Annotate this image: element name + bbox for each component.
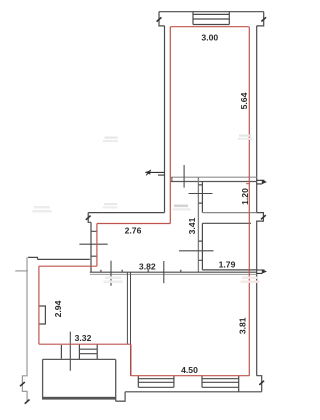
wire room 1.79 left wall segments xyxy=(201,223,203,270)
balcony outline xyxy=(43,359,116,401)
wire hall-corridor vertical wall xyxy=(197,177,199,272)
watermark 1 xyxy=(34,206,50,208)
door D1 top room leaf xyxy=(183,165,185,188)
watermark 7 xyxy=(104,203,117,205)
red boundary top room top xyxy=(170,26,249,28)
wire landing left pilaster xyxy=(88,213,91,223)
door D3 room 1.79 leaf xyxy=(179,250,214,252)
wire top-right pilaster xyxy=(257,12,264,26)
watermark 5 xyxy=(239,135,251,137)
node tick bottom-right xyxy=(259,381,264,385)
window W4 bottom right xyxy=(202,376,239,392)
red boundary top room left xyxy=(169,27,171,224)
red boundary left room bottom xyxy=(39,343,131,345)
arrowhead right y182 xyxy=(262,180,267,184)
door D7 balcony leaf xyxy=(69,332,71,371)
wire room 1.79 top wall xyxy=(202,222,251,224)
wire left dim stub xyxy=(15,270,28,272)
wire landing top wall xyxy=(88,212,164,214)
red boundary bottom xyxy=(131,375,250,377)
watermark 4 xyxy=(242,277,258,279)
wire wall between left and bottom rooms xyxy=(126,272,128,344)
red boundary right side xyxy=(248,27,250,376)
svg-text:1.79: 1.79 xyxy=(219,259,236,269)
arrowhead right y271.5 xyxy=(262,269,267,273)
door D4 left room leaf xyxy=(110,261,112,286)
arrow right wall y270 xyxy=(257,270,265,273)
wire corridor bottom wall xyxy=(90,271,257,273)
niche on left room wall xyxy=(39,306,46,324)
wire left room top wall xyxy=(28,257,90,259)
window W1 top xyxy=(193,12,229,25)
node entrance jambs xyxy=(91,231,97,256)
red boundary corridor left xyxy=(96,224,98,267)
red boundary lower left vertical xyxy=(130,344,132,376)
node tick top-right xyxy=(261,17,266,21)
watermark 2 xyxy=(174,205,188,208)
wire bottom outer wall xyxy=(125,391,262,393)
wire top outer wall xyxy=(159,11,264,13)
wire right outer wall upper xyxy=(257,26,264,376)
wire bottom-right pilaster xyxy=(257,376,262,392)
svg-text:5.64: 5.64 xyxy=(239,92,249,109)
red boundary corridor top xyxy=(97,223,170,225)
svg-text:4.50: 4.50 xyxy=(181,365,198,375)
door D5 big room leaf xyxy=(163,261,165,283)
watermark 3 xyxy=(105,277,121,279)
node balcony door jamb xyxy=(60,345,62,359)
svg-text:3.81: 3.81 xyxy=(238,317,248,334)
svg-text:3.41: 3.41 xyxy=(187,217,197,234)
wire closet 1.20 left line xyxy=(201,181,203,212)
wire left wall of top room and hall xyxy=(164,26,166,213)
svg-text:3.32: 3.32 xyxy=(75,333,92,343)
balcony bottom rail xyxy=(42,397,116,400)
node tick top-left xyxy=(157,17,162,21)
window W3 bottom left xyxy=(138,376,174,388)
watermark 6 xyxy=(105,137,118,139)
wire corridor left wall xyxy=(90,222,92,272)
wire top-left pilaster xyxy=(159,12,165,26)
node red tick y183.7 xyxy=(246,183,250,185)
wire divider between 1.20 and 1.79 rooms xyxy=(202,212,256,214)
arrow right wall y180 xyxy=(257,180,265,184)
door D2 closet leaf xyxy=(189,193,213,195)
node top room door jamb xyxy=(171,177,173,181)
arrowhead left 5.64 xyxy=(145,170,151,174)
red boundary left room top xyxy=(39,265,97,267)
svg-text:3.00: 3.00 xyxy=(201,32,218,42)
node door jambs left room xyxy=(101,270,181,272)
svg-text:2.76: 2.76 xyxy=(125,225,142,235)
svg-text:2.94: 2.94 xyxy=(53,300,63,317)
node tick left zigzag xyxy=(20,382,25,386)
arrow left 5.64 xyxy=(146,172,165,175)
wire room 1.79 bottom wall xyxy=(202,269,256,271)
wire top room bottom wall xyxy=(170,176,256,178)
svg-text:3.82: 3.82 xyxy=(139,262,156,272)
door D6 entrance leaf xyxy=(79,243,107,245)
node tick right jog xyxy=(261,215,266,219)
svg-text:1.20: 1.20 xyxy=(240,188,250,205)
node closet jamb bridges xyxy=(198,185,202,203)
node tick left wall end xyxy=(25,400,30,404)
red boundary left room left xyxy=(38,266,40,344)
node tick landing pilaster xyxy=(86,216,91,220)
window W2 balcony block xyxy=(79,344,97,359)
wire left outer gray wall xyxy=(22,257,27,401)
wire balcony step xyxy=(116,392,125,401)
node room 1.79 door jamb bridges xyxy=(198,241,202,260)
